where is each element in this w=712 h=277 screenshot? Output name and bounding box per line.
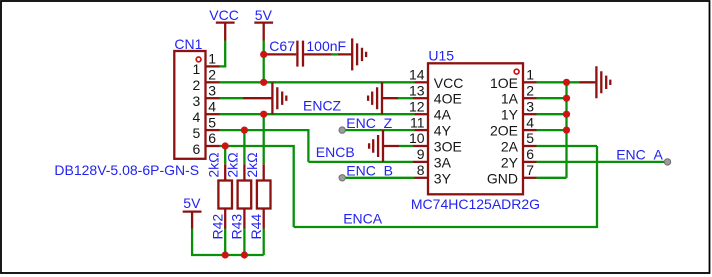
svg-text:10: 10 bbox=[409, 130, 425, 146]
wire 5V bottom rail bbox=[192, 229, 264, 256]
wire R43 top bbox=[243, 130, 245, 164]
svg-text:3OE: 3OE bbox=[434, 139, 462, 155]
ground G2 (CN1 pin3) bbox=[243, 82, 286, 114]
svg-text:6: 6 bbox=[193, 141, 201, 157]
svg-text:6: 6 bbox=[208, 130, 216, 146]
svg-text:1OE: 1OE bbox=[490, 75, 518, 91]
svg-text:3: 3 bbox=[208, 82, 216, 98]
U15 pin 2 1A bbox=[501, 82, 537, 106]
U15 pin 12 4A bbox=[409, 98, 452, 122]
svg-text:VCC: VCC bbox=[209, 7, 239, 23]
U15 pin 8 3Y bbox=[415, 162, 452, 186]
wire CN1 pin3 to ground G2 bbox=[220, 97, 244, 99]
svg-text:C67: C67 bbox=[269, 38, 295, 54]
svg-text:5: 5 bbox=[193, 125, 201, 141]
power VCC top bbox=[209, 7, 239, 40]
svg-text:4Y: 4Y bbox=[434, 123, 452, 139]
svg-text:100nF: 100nF bbox=[306, 38, 346, 54]
svg-text:5V: 5V bbox=[255, 7, 273, 23]
wire R43 bottom bbox=[243, 229, 245, 256]
junction bus pin2 bbox=[563, 95, 570, 102]
svg-text:4OE: 4OE bbox=[434, 91, 462, 107]
svg-text:1Y: 1Y bbox=[501, 107, 519, 123]
svg-text:GND: GND bbox=[487, 170, 518, 186]
junction bus pin4 bbox=[563, 127, 570, 134]
U15 pin 14 VCC bbox=[409, 67, 463, 91]
svg-text:CN1: CN1 bbox=[174, 36, 202, 52]
CN1 pin 2 bbox=[193, 67, 220, 94]
wire U15 pin3 to bus bbox=[537, 113, 567, 115]
svg-text:6: 6 bbox=[526, 146, 534, 162]
svg-text:ENCZ: ENCZ bbox=[303, 98, 342, 114]
svg-text:U15: U15 bbox=[428, 47, 454, 63]
junction R42 bottom rail bbox=[222, 251, 229, 258]
svg-text:11: 11 bbox=[410, 114, 425, 130]
wire 5V rail vertical bbox=[263, 41, 265, 83]
wire ENC_Z port to U15 pin11 bbox=[342, 129, 414, 131]
svg-text:2: 2 bbox=[193, 77, 201, 93]
svg-text:ENC_Z: ENC_Z bbox=[346, 115, 392, 131]
wire CN1 pin1 to VCC symbol bbox=[220, 41, 226, 67]
wire CN1 pin6 to ENCA corner bbox=[220, 146, 294, 227]
U15 pin 13 4OE bbox=[409, 82, 462, 106]
svg-text:4: 4 bbox=[193, 109, 201, 125]
wire ENCZ: CN1 pin4 to U15 pin12 bbox=[220, 113, 415, 115]
U15 pin 6 2Y bbox=[501, 146, 537, 170]
CN1 pin 6 bbox=[193, 130, 220, 157]
CN1 pin 3 bbox=[193, 82, 220, 109]
svg-text:1A: 1A bbox=[501, 91, 519, 107]
wire U15 pin6 2Y to ENC_A port bbox=[537, 161, 668, 163]
svg-text:2OE: 2OE bbox=[490, 123, 518, 139]
junction R43/pin5 wire bbox=[241, 127, 248, 134]
wire ENCB to U15 pin9 bbox=[308, 161, 413, 163]
wire U15 pin10 to ground G4 bbox=[399, 145, 413, 147]
svg-text:ENC_A: ENC_A bbox=[616, 147, 663, 163]
svg-text:R43: R43 bbox=[229, 214, 245, 240]
svg-text:5: 5 bbox=[208, 114, 216, 130]
svg-text:R42: R42 bbox=[209, 214, 225, 240]
junction R42/pin6 wire bbox=[222, 142, 229, 149]
wire U15 pin7 GND to bus bbox=[537, 177, 567, 179]
svg-text:13: 13 bbox=[409, 82, 425, 98]
svg-text:2Y: 2Y bbox=[501, 154, 519, 170]
CN1 pin 4 bbox=[193, 98, 220, 125]
wire U15 right gnd bus vertical bbox=[565, 82, 567, 178]
U15 pin 10 3OE bbox=[409, 130, 462, 154]
wire VCC net: CN1 pin2 to U15 pin14 bbox=[220, 81, 415, 83]
junction 5V/VCC wire bbox=[260, 79, 267, 86]
svg-text:DB128V-5.08-6P-GN-S: DB128V-5.08-6P-GN-S bbox=[54, 162, 199, 178]
wire U15 pin4 to bus bbox=[537, 129, 567, 131]
svg-text:2kΩ: 2kΩ bbox=[244, 152, 260, 177]
svg-text:1: 1 bbox=[208, 51, 216, 67]
CN1 pin 1 bbox=[193, 51, 220, 78]
svg-text:3Y: 3Y bbox=[434, 170, 452, 186]
port ENC_Z bbox=[339, 127, 345, 133]
svg-text:1: 1 bbox=[526, 67, 534, 83]
U15 pin 11 4Y bbox=[410, 114, 452, 138]
svg-text:3: 3 bbox=[526, 98, 534, 114]
U15 pin 9 3A bbox=[413, 146, 452, 170]
svg-text:MC74HC125ADR2G: MC74HC125ADR2G bbox=[411, 196, 540, 212]
svg-text:R44: R44 bbox=[248, 214, 264, 240]
U15 pin 3 1Y bbox=[501, 98, 537, 122]
wire U15 pin1 to ground G5 bbox=[537, 81, 580, 83]
U15 pin 1 1OE bbox=[490, 67, 537, 91]
wire R44 bottom bbox=[263, 229, 265, 256]
junction bus pin3 bbox=[563, 111, 570, 118]
svg-text:4A: 4A bbox=[434, 107, 452, 123]
port ENC_B bbox=[339, 175, 345, 181]
svg-text:3A: 3A bbox=[434, 154, 452, 170]
junction R44/ENCZ bbox=[260, 111, 267, 118]
resistor R44 2k bbox=[244, 152, 271, 239]
svg-text:2kΩ: 2kΩ bbox=[225, 152, 241, 177]
ground G5 (U15 pin1) bbox=[580, 66, 611, 98]
svg-text:8: 8 bbox=[417, 162, 425, 178]
U15 pin 4 2OE bbox=[490, 114, 537, 138]
capacitor C67 100nF bbox=[264, 38, 346, 67]
svg-text:14: 14 bbox=[409, 67, 425, 83]
svg-text:9: 9 bbox=[417, 146, 425, 162]
power 5V bottom bbox=[183, 195, 202, 228]
power 5V top bbox=[254, 7, 273, 40]
resistor R43 2k bbox=[225, 152, 252, 239]
svg-text:VCC: VCC bbox=[434, 75, 464, 91]
resistor R42 2k bbox=[205, 152, 232, 239]
U15 pin 5 2A bbox=[501, 130, 537, 154]
U15 pin 7 GND bbox=[487, 162, 537, 186]
junction C67/5V bbox=[260, 51, 267, 58]
wire R42 top bbox=[224, 146, 226, 164]
wire R42 bottom bbox=[224, 229, 226, 256]
wire U15 pin5 2A bbox=[537, 145, 598, 147]
ground G3 (U15 pin13) bbox=[368, 82, 398, 114]
svg-text:1: 1 bbox=[193, 61, 201, 77]
op-amp buffer U15 body bbox=[428, 47, 523, 194]
svg-text:ENCB: ENCB bbox=[316, 144, 355, 160]
svg-text:2kΩ: 2kΩ bbox=[205, 152, 221, 177]
wire ENC_B port to U15 pin8 bbox=[342, 177, 414, 179]
svg-text:2: 2 bbox=[208, 67, 216, 83]
svg-text:5V: 5V bbox=[183, 195, 201, 211]
wire C67 to 5V rail green gap bbox=[332, 53, 338, 55]
junction bus pin1 bbox=[563, 79, 570, 86]
svg-text:4: 4 bbox=[208, 98, 216, 114]
wire CN1 pin5 to ENCB corner bbox=[220, 130, 309, 162]
svg-text:ENC_B: ENC_B bbox=[346, 163, 393, 179]
svg-text:2A: 2A bbox=[501, 139, 519, 155]
svg-text:ENCA: ENCA bbox=[343, 210, 383, 226]
svg-text:5: 5 bbox=[526, 130, 534, 146]
junction R43 bottom rail bbox=[241, 251, 248, 258]
wire U15 pin2 to bus bbox=[537, 97, 567, 99]
ground G1 (C67) bbox=[338, 38, 366, 70]
svg-text:2: 2 bbox=[526, 82, 534, 98]
wire R44 top bbox=[263, 114, 265, 164]
svg-text:3: 3 bbox=[193, 93, 201, 109]
svg-text:7: 7 bbox=[526, 162, 534, 178]
port ENC_A bbox=[664, 159, 670, 165]
connector CN1 body bbox=[174, 36, 205, 159]
CN1 pin 5 bbox=[193, 114, 220, 141]
svg-text:4: 4 bbox=[526, 114, 534, 130]
svg-text:12: 12 bbox=[409, 98, 425, 114]
wire U15 pin13 to ground G3 bbox=[398, 97, 413, 99]
ground G4 (U15 pin10) bbox=[369, 130, 399, 162]
wire ENCA rail bbox=[294, 146, 597, 227]
